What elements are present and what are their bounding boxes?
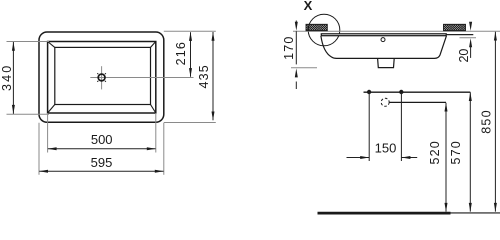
dim 20 stem top [470,22,472,25]
svg-text:150: 150 [375,141,397,156]
svg-text:X: X [304,0,313,13]
svg-text:595: 595 [91,155,113,170]
dim 570 arrow down [469,203,472,212]
bowl chamfer BR [151,105,156,114]
countertop hatch left [306,24,327,30]
dim 500 line [48,148,156,150]
dim 595 ext right [163,123,165,175]
trap line [389,101,446,103]
dim 20 stem bottom [470,45,472,58]
svg-text:340: 340 [0,64,14,91]
centerline vertical [101,66,103,89]
dim 340 ext top [7,41,50,43]
svg-text:20: 20 [457,49,471,63]
dim 520 arrow up [445,103,448,112]
tap hole ticks [97,73,106,82]
bowl top edge [48,42,156,114]
ext top right of basin [164,30,216,32]
overflow hole [381,38,385,42]
basin body outline [321,36,447,59]
dim 20 arrow down [469,22,472,31]
svg-text:850: 850 [480,109,494,133]
basin rim bar [321,34,446,36]
dim 150 ext right [400,92,402,161]
floor thin [451,212,500,214]
dim 520 line [445,103,447,212]
dim 850 arrow down [494,203,497,212]
fixing line [364,91,471,93]
dim 435 arrow up [212,32,215,41]
dim 595 arrow right [155,170,164,173]
dim 150 arrow left [360,156,369,159]
svg-text:570: 570 [449,140,463,164]
dim 170 stem bottom [295,82,297,90]
dim 340 line [12,42,14,114]
dim 150 tail left [347,157,370,159]
bowl bottom edge [55,47,151,104]
dim 435 arrow down [212,112,215,121]
rim edge right extension [446,34,473,36]
dim 595 ext left [38,123,40,175]
dim 570 arrow up [469,92,472,101]
tap hole [98,74,105,81]
svg-text:500: 500 [91,132,113,147]
bowl chamfer BL [48,105,55,114]
dim 500 ext left [47,113,49,153]
svg-text:216: 216 [174,41,188,65]
fixing dot right [399,90,403,94]
svg-text:170: 170 [282,35,296,59]
dim 850 arrow up [494,32,497,41]
countertop line [293,30,500,32]
floor thick [318,212,451,215]
dim 340 arrow down [12,105,15,114]
dim 20 ext lower [460,37,477,39]
dim 500 ext right [155,113,157,153]
drain boss [378,58,395,67]
detail circle [308,14,340,46]
dim 520 arrow down [445,203,448,212]
basin outer rim [39,32,164,122]
bowl chamfer TR [151,42,156,48]
dim 150 ext left [368,92,370,161]
trap circle [381,98,389,106]
dim 216 line [190,32,192,77]
centerline horizontal [90,77,193,79]
svg-text:435: 435 [197,64,211,88]
dim 595 line [39,170,163,172]
ext bottom right of basin [164,122,216,124]
dim 216 arrow up [189,32,192,41]
bowl chamfer TL [48,42,55,48]
fixing dot left [367,90,371,94]
dim 170 ext bottom [291,67,317,69]
dim 170 line [295,31,297,64]
dim 150 tail right [401,157,417,159]
dim 340 ext bottom [7,113,50,115]
dim 340 arrow up [12,42,15,51]
countertop hatch right [444,24,466,30]
dim 500 arrow left [48,147,57,150]
dim 500 arrow right [147,147,156,150]
dim 150 arrow right [401,156,410,159]
dim 570 line [469,92,471,211]
dim 170 stem top [295,21,297,25]
dim 850 line [494,32,496,212]
dim 170 arrow up [295,68,298,77]
dim 435 line [212,32,214,120]
dim 595 arrow left [39,170,48,173]
svg-text:520: 520 [428,140,442,164]
dim 170 arrow down [295,22,298,31]
dim 216 arrow down [189,68,192,77]
dim 20 arrow up [469,38,472,47]
